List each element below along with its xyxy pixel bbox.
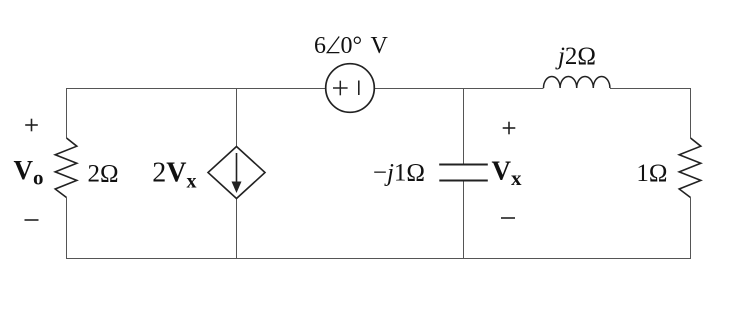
svg-text:Vo: Vo bbox=[14, 155, 44, 190]
minus Vx bbox=[501, 217, 515, 219]
plus Vx bbox=[503, 127, 516, 129]
wire top-right of source to inductor bbox=[374, 88, 544, 90]
wire current-source branch lower bbox=[236, 199, 238, 260]
plus sign inside source bbox=[333, 87, 348, 89]
svg-text:6: 6 bbox=[314, 33, 326, 59]
inductor j2ohm bbox=[544, 76, 610, 88]
svg-text:0°: 0° bbox=[341, 33, 363, 59]
svg-text:−j1Ω: −j1Ω bbox=[373, 160, 425, 187]
wire right branch lower bbox=[690, 198, 692, 260]
minus (rotated) inside source bbox=[358, 81, 360, 96]
wire inductor to top-right corner bbox=[610, 88, 691, 90]
wire bottom bbox=[66, 258, 691, 260]
wire left branch lower bbox=[66, 198, 68, 260]
label 6∠0° V bbox=[314, 33, 389, 59]
dependent current source diamond 2Vx bbox=[208, 147, 265, 199]
svg-text:V: V bbox=[371, 33, 389, 59]
resistor 1ohm (right) bbox=[679, 138, 701, 198]
svg-text:j2Ω: j2Ω bbox=[555, 43, 596, 70]
wire current-source branch upper bbox=[236, 88, 238, 147]
wire left branch upper bbox=[66, 88, 68, 138]
svg-text:2Vx: 2Vx bbox=[152, 158, 196, 193]
plus Vo bbox=[25, 124, 38, 126]
svg-text:2Ω: 2Ω bbox=[88, 161, 119, 188]
resistor R 2ohm (left) bbox=[55, 138, 77, 198]
minus Vo bbox=[25, 219, 39, 221]
svg-text:1Ω: 1Ω bbox=[636, 160, 667, 187]
svg-text:Vx: Vx bbox=[492, 156, 523, 191]
capacitor -j1ohm plates bbox=[439, 164, 488, 166]
current source arrow bbox=[236, 153, 238, 184]
wire capacitor branch upper bbox=[463, 88, 465, 165]
wire right branch upper bbox=[690, 88, 692, 138]
wire top-left segment bbox=[66, 88, 326, 90]
wire capacitor branch lower bbox=[463, 181, 465, 259]
voltage source circle 6∠0°V bbox=[326, 64, 375, 113]
